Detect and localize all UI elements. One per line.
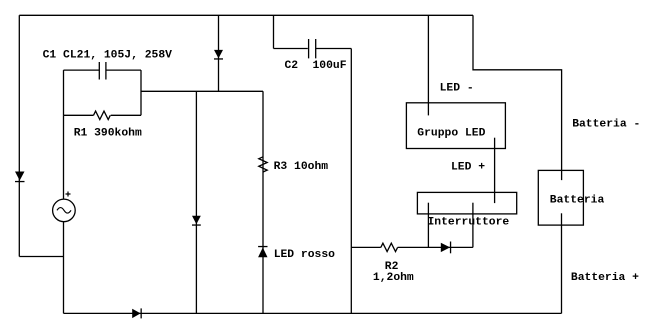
svg-text:R1 390kohm: R1 390kohm: [74, 128, 142, 140]
svg-text:LED -: LED -: [440, 83, 474, 95]
resistor R1 zigzag: [94, 111, 111, 119]
wire RC loop top edge: [64, 69, 142, 71]
svg-text:LED +: LED +: [451, 162, 485, 174]
svg-text:C1 CL21, 105J, 258V: C1 CL21, 105J, 258V: [43, 50, 173, 62]
wire vertical x263 (R3/LED branch): [262, 91, 264, 313]
wire vertical x351: [350, 49, 352, 314]
svg-text:C2: C2: [285, 60, 299, 72]
svg-text:LED rosso: LED rosso: [274, 249, 335, 261]
wire top-right corner to battery: [473, 15, 562, 180]
diode D4 bottom rail: [132, 309, 140, 318]
wire node row y91: [141, 90, 263, 92]
AC source V1 circle: [53, 199, 76, 222]
wire RC loop bottom edge: [64, 114, 142, 116]
svg-text:Batteria +: Batteria +: [571, 272, 639, 284]
wire LED+ from Gruppo LED to switch: [494, 138, 496, 203]
wire battery bottom: [561, 213, 563, 313]
wire vertical x218: [218, 15, 220, 91]
AC source plus sign: [66, 192, 71, 197]
wire top rail: [19, 14, 473, 16]
wire top to Gruppo LED: [427, 15, 429, 115]
resistor R2 zigzag: [381, 243, 398, 251]
diode D5 R2 row: [441, 243, 450, 252]
svg-text:Interruttore: Interruttore: [428, 217, 510, 229]
wire C2 to vertical: [316, 48, 352, 50]
wire AC branch vertical: [63, 115, 65, 313]
svg-text:Batteria -: Batteria -: [572, 118, 640, 130]
resistor R3 zigzag: [259, 157, 267, 172]
wire R2 row: [351, 246, 473, 248]
svg-text:100uF: 100uF: [313, 60, 347, 72]
diode D3 mid (x196): [192, 216, 201, 225]
Batteria box: [538, 170, 583, 225]
wire vertical x196: [195, 91, 197, 313]
svg-text:Batteria: Batteria: [550, 195, 605, 207]
svg-text:1,2ohm: 1,2ohm: [373, 272, 414, 284]
capacitor C1 plates: [99, 62, 106, 80]
wire diode-to-switch vertical: [472, 203, 474, 248]
svg-text:R3 10ohm: R3 10ohm: [274, 161, 329, 173]
wire RC loop right edge: [140, 70, 142, 115]
wire RC loop left edge: [63, 70, 65, 115]
Interruttore box: [417, 192, 516, 214]
LED rosso symbol: [258, 246, 267, 247]
wire bottom rail: [64, 312, 562, 314]
wire bottom-left horizontal: [19, 256, 63, 258]
wire switch-to-R2row vertical: [427, 203, 429, 248]
diode D1 left: [15, 172, 25, 181]
wire C2 branch from top: [274, 15, 308, 48]
capacitor C2 plates: [309, 39, 316, 58]
AC source sine: [57, 208, 71, 214]
diode D2 top (x218): [214, 50, 223, 59]
wire left border: [18, 15, 20, 256]
svg-text:Gruppo LED: Gruppo LED: [417, 128, 485, 140]
Gruppo LED box: [406, 103, 505, 149]
